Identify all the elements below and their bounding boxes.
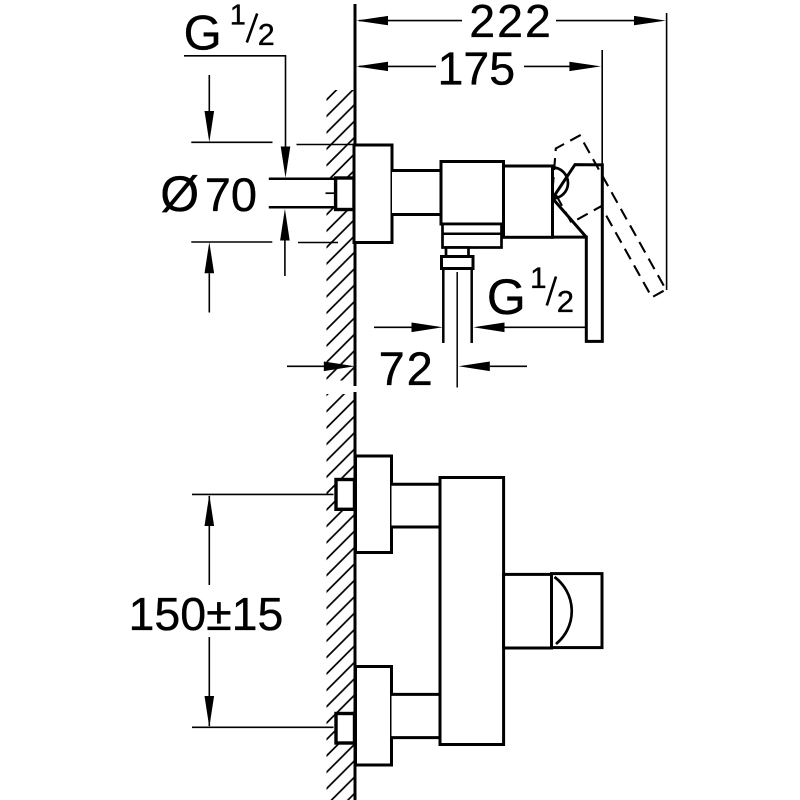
- body (top view): [441, 162, 504, 225]
- dim d70 lower arrow: [205, 242, 215, 273]
- hose union nut: [442, 257, 474, 269]
- svg-text:Ø: Ø: [160, 166, 199, 222]
- dim 150 bottom arrow: [205, 696, 215, 727]
- escutcheon bottom (front view): [356, 667, 392, 766]
- svg-text:2: 2: [258, 18, 275, 52]
- hose centreline: [456, 272, 458, 388]
- svg-text:150±15: 150±15: [128, 588, 283, 640]
- dim d70 bottom extension line: [191, 241, 272, 243]
- svg-text:7: 7: [379, 342, 405, 395]
- label G1/2 underline: [184, 55, 286, 57]
- handle cap arc: [555, 577, 572, 644]
- dim d70 upper arrow: [205, 111, 215, 142]
- body (front view): [440, 478, 504, 745]
- lever solid (down position): [553, 165, 603, 342]
- dim 222 right extension line: [666, 13, 668, 290]
- wall line bottom view: [354, 392, 357, 800]
- G1/2 mid right pointer line: [505, 326, 587, 328]
- label G1/2 mid text: [487, 262, 574, 325]
- dim 72 right line: [490, 365, 527, 367]
- G1/2 lower arrow up: [280, 209, 290, 241]
- G1/2 lower arrow tail: [284, 241, 286, 277]
- wall hatching bottom view: [327, 394, 356, 800]
- neck (top view): [392, 171, 441, 215]
- dim 150 extension bottom: [192, 726, 334, 728]
- handle cap (front view): [552, 574, 603, 648]
- dim 150 top arrow: [205, 495, 215, 526]
- G1/2 leader arrow down: [281, 147, 291, 178]
- union nut in wall (top view): [336, 178, 354, 210]
- svg-text:70: 70: [205, 168, 257, 221]
- dim 175 extension line: [601, 50, 603, 170]
- G1/2 mid left arrow: [412, 323, 443, 333]
- dim 175 left arrow: [356, 62, 388, 71]
- dim d70 lower arrow line: [208, 273, 210, 312]
- dim 222 left arrow: [356, 16, 388, 25]
- dim 72 left arrow: [324, 362, 355, 372]
- hose nipple: [446, 248, 469, 257]
- neck bottom (front view): [392, 694, 442, 737]
- dim 222 line: [359, 20, 635, 22]
- dim d70 bottom extension right segment: [298, 242, 338, 244]
- union nut bottom (front view): [336, 714, 355, 744]
- svg-text:G: G: [487, 269, 526, 325]
- svg-text:2: 2: [407, 342, 433, 395]
- hose pipe left line: [442, 269, 445, 344]
- hose pipe right line: [470, 269, 473, 344]
- cartridge cap (top view): [504, 166, 553, 237]
- dim 150 extension top: [192, 493, 334, 495]
- dim 150 line lower: [208, 637, 210, 726]
- dim 150 line upper: [208, 496, 210, 585]
- svg-text:175: 175: [438, 42, 516, 94]
- neck top (front view): [392, 484, 442, 527]
- dim d70 top extension right segment: [297, 144, 355, 146]
- svg-text:2: 2: [557, 284, 574, 319]
- dim 72 left line: [287, 365, 325, 367]
- escutcheon (top view): [354, 145, 392, 243]
- supply pipe in wall (top view): [269, 179, 337, 208]
- dim 175 right arrow: [569, 62, 601, 71]
- body ring line: [443, 233, 502, 236]
- union nut top (front view): [336, 480, 355, 510]
- svg-text:G: G: [184, 7, 222, 61]
- handle stub (front view): [504, 574, 552, 648]
- svg-text:222: 222: [469, 0, 553, 47]
- G1/2 leader line: [285, 56, 287, 147]
- wall line top view: [354, 4, 357, 386]
- svg-text:1: 1: [230, 0, 246, 32]
- pipe centre tick: [326, 192, 335, 194]
- lever dashed (open position): [536, 135, 666, 314]
- cap dome arc: [553, 168, 569, 199]
- G1/2 mid left pointer line: [374, 326, 412, 328]
- escutcheon top (front view): [356, 456, 392, 553]
- svg-text:1: 1: [530, 262, 546, 295]
- dim 72 right arrow: [459, 362, 490, 372]
- dim d70 upper arrow line: [208, 75, 210, 112]
- label G 1/2 top-left text: [184, 0, 275, 61]
- lever underside chamfer: [553, 198, 587, 237]
- dim 175 line: [359, 65, 570, 67]
- dim d70 top extension line: [191, 141, 272, 143]
- G1/2 mid right arrow: [473, 323, 504, 333]
- body lower ring (top view): [443, 224, 502, 248]
- dim 222 right arrow: [634, 16, 666, 25]
- wall hatching top view: [327, 90, 356, 381]
